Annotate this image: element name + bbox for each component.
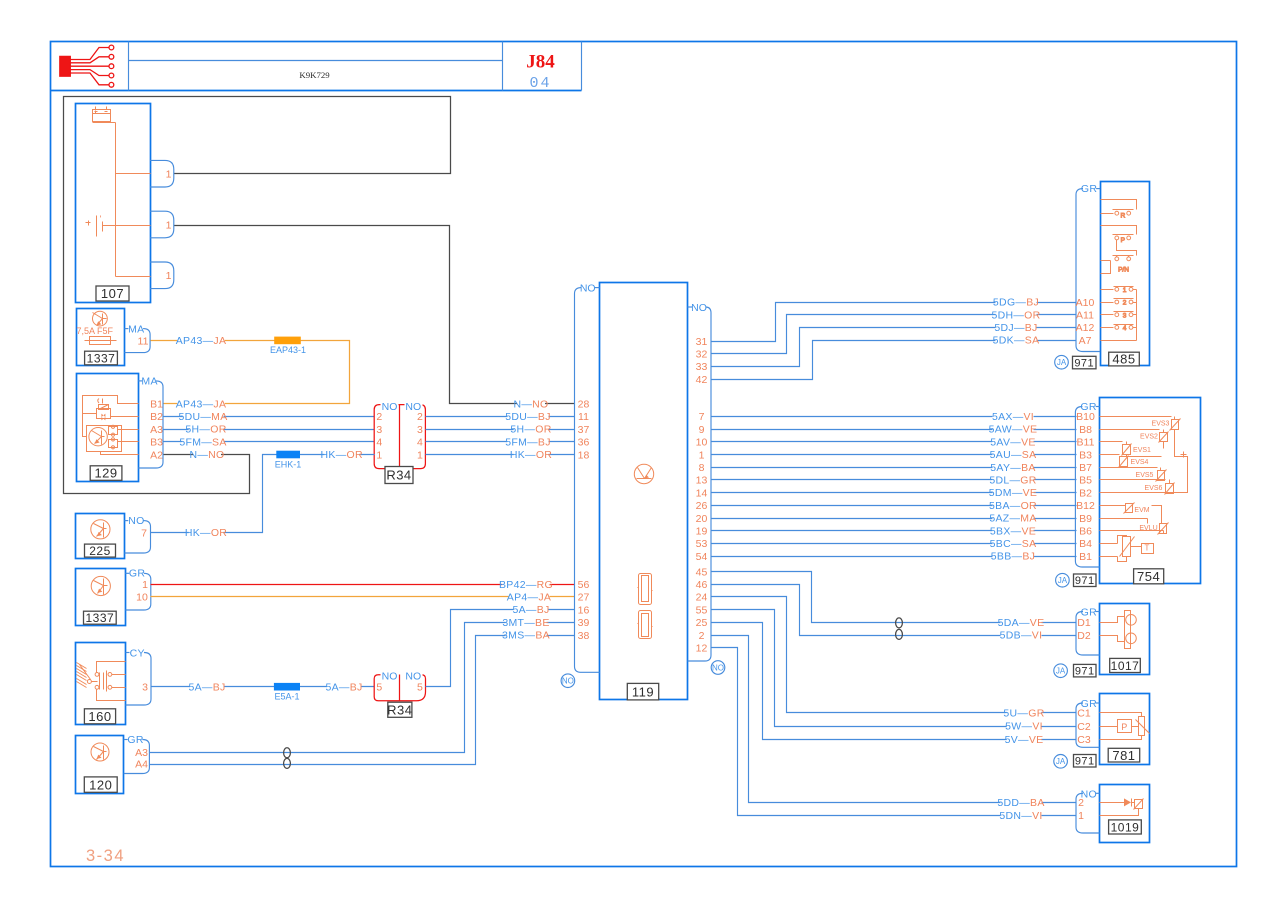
svg-text:4: 4 xyxy=(376,437,382,449)
svg-text:33: 33 xyxy=(696,361,708,373)
svg-text:NO: NO xyxy=(382,401,398,413)
component 107 battery box xyxy=(76,104,151,303)
label HK-OR near R34 xyxy=(324,449,359,459)
wire 5A-BJ from 160 pin 3 through splice E5A-1 to R34 lower xyxy=(152,686,375,688)
svg-text:GR: GR xyxy=(127,734,143,746)
754 solenoid EVS4 xyxy=(1100,454,1120,456)
wire 3MT-BE 120 A3 to 119 pin 39 xyxy=(150,623,575,753)
754 solenoid EVLU xyxy=(1100,518,1148,520)
label 5AX-VI xyxy=(992,411,1033,421)
label 5DK-SA xyxy=(995,335,1036,345)
119 left circled NO xyxy=(561,674,575,688)
225 transistor symbol xyxy=(91,520,110,539)
svg-text:MA: MA xyxy=(141,375,157,387)
connector R34 upper xyxy=(374,405,425,469)
component 129 box xyxy=(77,374,139,482)
129 lower wires xyxy=(118,429,139,431)
129 glow plug icon xyxy=(98,399,99,404)
title block lines xyxy=(51,90,582,92)
svg-text:5DG—BJ: 5DG—BJ xyxy=(993,297,1039,309)
svg-text:1: 1 xyxy=(166,169,172,181)
svg-text:781: 781 xyxy=(1112,748,1135,763)
svg-text:A10: A10 xyxy=(1076,297,1095,309)
svg-text:9: 9 xyxy=(699,424,705,436)
svg-text:45: 45 xyxy=(696,566,708,578)
svg-text:5BC—SA: 5BC—SA xyxy=(990,538,1037,550)
svg-text:20: 20 xyxy=(696,513,708,525)
1019 label box xyxy=(1109,820,1142,834)
label 5AU-SA xyxy=(992,449,1033,459)
svg-text:32: 32 xyxy=(696,349,708,361)
label 5DM-VE xyxy=(992,487,1033,497)
svg-text:1: 1 xyxy=(142,579,148,591)
label 5BC-SA xyxy=(992,538,1033,548)
svg-text:R34: R34 xyxy=(387,702,412,717)
R34 upper label box xyxy=(385,467,413,484)
svg-text:A7: A7 xyxy=(1079,335,1092,347)
485 switch P/N xyxy=(1115,257,1119,261)
svg-text:5AV—VE: 5AV—VE xyxy=(990,436,1035,448)
wire 5AZ-MA 119 pin 20 to 754 B9 xyxy=(712,518,1077,520)
component 1019 box xyxy=(1100,785,1150,843)
svg-text:B3: B3 xyxy=(1079,449,1092,461)
component 1337 fuse box xyxy=(77,309,125,366)
svg-text:7,5A F5F: 7,5A F5F xyxy=(77,326,114,336)
svg-text:BP42—RG: BP42—RG xyxy=(499,579,553,591)
754 solenoid EVS5 xyxy=(1100,467,1158,469)
svg-text:5: 5 xyxy=(417,682,423,694)
svg-text:5: 5 xyxy=(376,682,382,694)
wire 5AU-SA 119 pin 1 to 754 B3 xyxy=(712,454,1077,456)
781 label box xyxy=(1108,748,1140,762)
R34 lower label box xyxy=(388,702,412,717)
svg-text:GR: GR xyxy=(129,568,145,580)
svg-text:T: T xyxy=(1145,543,1150,552)
svg-text:971: 971 xyxy=(1075,666,1095,678)
svg-text:971: 971 xyxy=(1075,756,1095,768)
wire HK-OR from 225 pin 7 to splice EHK-1 and R34 pin 1 xyxy=(151,455,375,533)
1337 connector bracket MA pin 11 xyxy=(124,328,128,330)
svg-text:2: 2 xyxy=(699,630,705,642)
svg-text:1: 1 xyxy=(1123,287,1127,294)
754 solenoid EVS2 xyxy=(1100,429,1160,431)
120 label box xyxy=(84,777,117,792)
svg-text:7: 7 xyxy=(699,411,705,423)
svg-text:5DJ—BJ: 5DJ—BJ xyxy=(994,322,1037,334)
svg-text:A2: A2 xyxy=(150,449,163,461)
svg-text:NO: NO xyxy=(382,671,398,683)
label 5AV-VE xyxy=(992,437,1033,447)
119 right connector bracket NO xyxy=(688,306,693,308)
svg-text:AP43—JA: AP43—JA xyxy=(176,398,227,410)
1337 transistor symbol xyxy=(93,311,108,326)
svg-text:19: 19 xyxy=(696,526,708,538)
svg-text:B3: B3 xyxy=(150,437,163,449)
svg-text:5H—OR: 5H—OR xyxy=(185,424,226,436)
129 label box xyxy=(90,466,122,481)
component 1337 lower box xyxy=(76,569,126,626)
svg-text:NO: NO xyxy=(128,515,144,527)
svg-text:1: 1 xyxy=(166,219,172,231)
component 485 box xyxy=(1101,182,1150,366)
svg-text:5U—GR: 5U—GR xyxy=(1003,708,1044,720)
svg-text:10: 10 xyxy=(696,437,708,449)
svg-text:5DM—VE: 5DM—VE xyxy=(989,487,1037,499)
svg-text:AP4—JA: AP4—JA xyxy=(507,592,551,604)
svg-text:JA: JA xyxy=(1056,667,1066,676)
svg-text:1: 1 xyxy=(376,449,382,461)
svg-text:04: 04 xyxy=(529,75,551,92)
label 5AY-BA xyxy=(992,462,1033,472)
485 switch P xyxy=(1101,226,1137,235)
splice EHK-1 xyxy=(276,451,300,459)
svg-text:A3: A3 xyxy=(150,424,163,436)
1337 label box xyxy=(85,351,118,365)
754 JA circle xyxy=(1056,573,1070,587)
1017 sensor symbol xyxy=(1100,617,1125,623)
svg-text:3: 3 xyxy=(417,424,423,436)
ECU 119 box xyxy=(600,283,688,700)
svg-text:119: 119 xyxy=(632,684,654,699)
wire 5AX-VI 119 pin 7 to 754 B10 xyxy=(712,416,1077,418)
svg-text:3: 3 xyxy=(376,424,382,436)
svg-text:46: 46 xyxy=(696,579,708,591)
wires R34 right to 119 pins 11 37 36 xyxy=(426,416,575,418)
component 160 box xyxy=(76,643,126,725)
svg-text:1: 1 xyxy=(417,449,423,461)
component 754 box xyxy=(1100,398,1201,584)
svg-text:5H—OR: 5H—OR xyxy=(510,424,551,436)
svg-text:24: 24 xyxy=(696,592,708,604)
svg-text:5AW—VE: 5AW—VE xyxy=(989,424,1038,436)
label 5AZ-MA xyxy=(992,513,1033,523)
754 label box xyxy=(1134,569,1164,584)
wire 5DN-VI 119 pin 12 to 1019 pin 1 xyxy=(712,648,1077,816)
754 connector bracket GR pins B xyxy=(1096,406,1100,408)
wire 5AW-VE 119 pin 9 to 754 B8 xyxy=(712,429,1077,431)
svg-text:1337: 1337 xyxy=(87,351,116,365)
svg-text:42: 42 xyxy=(696,374,708,386)
svg-text:2: 2 xyxy=(376,411,382,423)
wire 5AY-BA 119 pin 8 to 754 B7 xyxy=(712,467,1077,469)
svg-text:39: 39 xyxy=(578,617,590,629)
svg-text:R34: R34 xyxy=(386,468,411,483)
1337 lower transistor symbol xyxy=(91,576,110,595)
svg-text:26: 26 xyxy=(696,500,708,512)
svg-text:NO: NO xyxy=(580,282,596,294)
225 connector bracket NO pin 7 xyxy=(124,520,128,522)
485 switches 1-4 xyxy=(1101,289,1114,291)
label 5DG-BJ xyxy=(995,297,1036,307)
label N-NO at 129 A2 xyxy=(193,449,221,459)
wire 5DH-OR 119 pin 32 to 485 A11 xyxy=(712,315,1077,354)
svg-text:1: 1 xyxy=(1078,810,1084,822)
svg-text:P/N: P/N xyxy=(1118,267,1129,274)
svg-text:B9: B9 xyxy=(1079,513,1092,525)
754 solenoid EVM xyxy=(1100,505,1126,507)
label AP43-JA upper xyxy=(177,335,225,345)
svg-text:3MT—BE: 3MT—BE xyxy=(502,617,549,629)
svg-text:11: 11 xyxy=(578,411,589,423)
svg-text:J84: J84 xyxy=(526,52,555,73)
wire 3MS-BA 120 A4 to 119 pin 38 xyxy=(150,636,575,765)
485 connector bracket GR pins A10 A11 A12 A7 xyxy=(1096,188,1100,190)
svg-text:B7: B7 xyxy=(1079,462,1092,474)
svg-text:D1: D1 xyxy=(1077,617,1091,629)
wire 5FM-SA 129 B3 to R34 xyxy=(164,441,375,443)
120 transistor symbol xyxy=(91,743,109,761)
svg-text:P: P xyxy=(1121,237,1125,244)
wire AP4-JA 1337 pin 10 to 119 pin 27 xyxy=(151,596,575,598)
svg-text:B5: B5 xyxy=(1079,475,1092,487)
119 internal symbol circle xyxy=(634,464,653,483)
battery icon xyxy=(93,107,111,122)
svg-text:5BA—OR: 5BA—OR xyxy=(989,500,1037,512)
component 120 box xyxy=(76,736,124,794)
svg-text:5W—VI: 5W—VI xyxy=(1005,721,1043,733)
1019 diode symbol xyxy=(1100,802,1125,804)
wire 5DD-BA 119 pin 2 to 1019 pin 2 xyxy=(712,636,1077,803)
1019 connector bracket NO pins 2 1 xyxy=(1096,792,1100,794)
svg-text:B2: B2 xyxy=(150,411,163,423)
svg-text:56: 56 xyxy=(578,579,590,591)
svg-text:160: 160 xyxy=(88,709,111,724)
1337 lower connector bracket GR pins 1 10 xyxy=(125,572,129,574)
svg-text:R: R xyxy=(1120,212,1125,219)
wire 5DK-SA 119 pin 42 to 485 A7 xyxy=(712,341,1077,380)
svg-text:NO: NO xyxy=(562,677,574,686)
label 5BB-BJ xyxy=(992,551,1033,561)
svg-text:C1: C1 xyxy=(1077,708,1091,720)
wire 5DB-VI 119 pin 46 to 1017 D2 xyxy=(712,585,1077,636)
129 bowtie arrow xyxy=(101,414,105,421)
485 JA circle xyxy=(1055,355,1069,369)
svg-text:2: 2 xyxy=(1123,300,1127,307)
225 label box xyxy=(85,544,116,557)
svg-text:B4: B4 xyxy=(1079,538,1092,550)
781 connector bracket GR pins C1 C2 C3 xyxy=(1096,702,1100,704)
svg-text:NO: NO xyxy=(691,302,707,314)
754 971 box xyxy=(1074,574,1097,587)
119 label box xyxy=(627,683,658,700)
svg-text:55: 55 xyxy=(696,604,708,616)
svg-text:JA: JA xyxy=(1058,576,1068,585)
svg-text:3: 3 xyxy=(142,682,148,694)
485 label box xyxy=(1109,352,1140,366)
svg-text:B2: B2 xyxy=(1079,487,1092,499)
label 5BA-OR xyxy=(992,500,1033,510)
svg-text:EVS3: EVS3 xyxy=(1152,421,1170,428)
485 971 box xyxy=(1073,356,1097,369)
119 left connector bracket NO xyxy=(595,287,600,289)
svg-text:K9K729: K9K729 xyxy=(299,70,330,80)
svg-text:5A—BJ: 5A—BJ xyxy=(512,604,549,616)
svg-text:JA: JA xyxy=(1056,757,1066,766)
wire 5W-VI 119 pin 55 to 781 C2 xyxy=(712,610,1077,727)
svg-text:EVS4: EVS4 xyxy=(1131,459,1149,466)
wire 5DA-VE 119 pin 45 to 1017 D1 xyxy=(712,572,1077,623)
svg-text:C2: C2 xyxy=(1077,721,1091,733)
1017 label box xyxy=(1110,658,1141,672)
svg-text:B12: B12 xyxy=(1076,500,1095,512)
svg-text:B1: B1 xyxy=(1079,551,1092,563)
781 pressure sensor symbol xyxy=(1100,713,1142,717)
svg-text:8: 8 xyxy=(699,462,705,474)
svg-text:5AY—BA: 5AY—BA xyxy=(990,462,1035,474)
wire battery feed N-NO (107 tab2 to 119 pin 28) xyxy=(174,226,575,404)
svg-text:2: 2 xyxy=(417,411,423,423)
svg-text:5DB—VI: 5DB—VI xyxy=(1000,630,1043,642)
781 JA circle xyxy=(1054,755,1068,769)
485 switch R xyxy=(1101,200,1137,341)
119 right circled NO xyxy=(711,661,725,675)
wire 5BA-OR 119 pin 26 to 754 B12 xyxy=(712,505,1077,507)
119 internal plug symbols xyxy=(639,574,652,605)
svg-text:1: 1 xyxy=(166,270,172,282)
svg-text:EVS1: EVS1 xyxy=(1133,447,1151,454)
wire BP42-RG 1337 pin 1 to 119 pin 56 xyxy=(151,584,575,586)
svg-text:971: 971 xyxy=(1075,575,1095,587)
svg-text:GR: GR xyxy=(1081,183,1097,195)
svg-text:EVS6: EVS6 xyxy=(1145,485,1163,492)
wire 5H-OR 129 A3 to R34 xyxy=(164,429,375,431)
160 ignition switch symbol xyxy=(77,662,126,701)
wire 5DL-GR 119 pin 13 to 754 B5 xyxy=(712,479,1077,481)
svg-text:5DA—VE: 5DA—VE xyxy=(998,617,1045,629)
svg-text:5DD—BA: 5DD—BA xyxy=(997,797,1044,809)
1017 JA circle xyxy=(1054,664,1068,678)
svg-text:54: 54 xyxy=(696,551,708,563)
129 slanted box xyxy=(99,405,109,410)
160 label box xyxy=(84,709,115,724)
svg-text:14: 14 xyxy=(696,487,708,499)
splice EAP43-1 xyxy=(274,337,301,345)
svg-text:12: 12 xyxy=(696,643,708,655)
svg-text:225: 225 xyxy=(89,544,111,558)
svg-text:28: 28 xyxy=(578,399,590,411)
svg-text:5FM—BJ: 5FM—BJ xyxy=(505,436,551,448)
svg-text:5A—BJ: 5A—BJ xyxy=(188,681,225,693)
754 temperature sensor xyxy=(1100,543,1118,545)
svg-text:5DN—VI: 5DN—VI xyxy=(999,810,1042,822)
107 label box xyxy=(96,286,129,301)
svg-text:25: 25 xyxy=(696,617,708,629)
svg-text:5DU—BJ: 5DU—BJ xyxy=(505,411,551,423)
svg-text:C3: C3 xyxy=(1077,734,1091,746)
svg-text:3: 3 xyxy=(1123,312,1127,319)
svg-text:P: P xyxy=(1121,722,1127,732)
twisted pair symbol xyxy=(284,748,291,758)
svg-text:EVS5: EVS5 xyxy=(1136,472,1154,479)
svg-text:B11: B11 xyxy=(1077,437,1095,449)
svg-text:EVS2: EVS2 xyxy=(1140,434,1158,441)
wire 5A-BJ R34 lower to 119 pin 16 xyxy=(426,610,575,687)
svg-text:1019: 1019 xyxy=(1111,820,1140,834)
svg-text:27: 27 xyxy=(578,592,590,604)
129 valve squares xyxy=(109,427,118,435)
twisted pair symbol right xyxy=(896,618,903,628)
svg-text:4: 4 xyxy=(417,437,423,449)
svg-text:EHK-1: EHK-1 xyxy=(275,459,302,469)
781 971 box xyxy=(1074,755,1097,768)
label 5DL-GR xyxy=(992,475,1033,485)
svg-text:18: 18 xyxy=(578,449,590,461)
svg-text:11: 11 xyxy=(138,335,149,347)
fuse symbol xyxy=(90,337,111,345)
svg-text:NO: NO xyxy=(712,663,724,672)
160 connector bracket CY pin 3 xyxy=(126,652,130,654)
120 connector bracket GR pins A3 A4 xyxy=(124,739,128,741)
svg-text:5DH—OR: 5DH—OR xyxy=(991,309,1040,321)
wire 5BC-SA 119 pin 53 to 754 B4 xyxy=(712,543,1077,545)
svg-text:1: 1 xyxy=(699,449,705,461)
svg-text:5A—BJ: 5A—BJ xyxy=(325,681,362,693)
svg-text:JA: JA xyxy=(1057,358,1067,367)
svg-text:HK—OR: HK—OR xyxy=(185,527,227,539)
107 internal wires xyxy=(93,122,116,124)
svg-text:10: 10 xyxy=(136,592,148,604)
label 5BX-VE xyxy=(992,526,1033,536)
svg-text:5DL—GR: 5DL—GR xyxy=(989,475,1036,487)
1017 971 box xyxy=(1074,664,1097,677)
svg-text:4: 4 xyxy=(1123,325,1127,332)
svg-text:3MS—BA: 3MS—BA xyxy=(502,630,550,642)
wire battery ground loop N-NO (107 tab1 to 129 A2) xyxy=(64,97,451,494)
svg-text:16: 16 xyxy=(578,604,590,616)
svg-text:D2: D2 xyxy=(1077,630,1091,642)
754 solenoid EVS1 xyxy=(1100,441,1123,443)
svg-text:B8: B8 xyxy=(1079,424,1092,436)
svg-text:A4: A4 xyxy=(135,759,148,771)
svg-text:31: 31 xyxy=(696,336,708,348)
1017 connector bracket GR pins D1 D2 xyxy=(1096,611,1100,613)
svg-text:37: 37 xyxy=(578,424,590,436)
svg-text:HK—OR: HK—OR xyxy=(510,449,552,461)
129 motor rect xyxy=(87,426,122,452)
svg-text:1017: 1017 xyxy=(1111,659,1140,673)
svg-text:5AZ—MA: 5AZ—MA xyxy=(989,513,1036,525)
svg-text:N—NO: N—NO xyxy=(513,398,548,410)
754 solenoid EVS3 xyxy=(1100,416,1172,418)
component 1017 box xyxy=(1100,604,1150,675)
754 plus bus xyxy=(1100,430,1188,493)
svg-text:5AU—SA: 5AU—SA xyxy=(990,449,1037,461)
svg-text:AP43—JA: AP43—JA xyxy=(176,335,227,347)
svg-text:EAP43-1: EAP43-1 xyxy=(270,345,306,355)
svg-text:107: 107 xyxy=(101,286,124,301)
wire 5DG-BJ 119 pin 31 to 485 A10 xyxy=(712,303,1077,342)
svg-text:A12: A12 xyxy=(1076,322,1095,334)
connector R34 lower xyxy=(374,675,425,701)
svg-text:5DK—SA: 5DK—SA xyxy=(993,335,1040,347)
svg-text:5FM—SA: 5FM—SA xyxy=(179,436,226,448)
wire HK-OR R34 pin1 to 119 pin 18 xyxy=(426,454,575,456)
wire 5AV-VE 119 pin 10 to 754 B11 xyxy=(712,441,1077,443)
wire 5V-VE 119 pin 25 to 781 C3 xyxy=(712,623,1077,740)
129 relay rect xyxy=(97,409,111,419)
svg-text:971: 971 xyxy=(1074,358,1094,370)
label 5AW-VE xyxy=(992,424,1033,434)
svg-text:B6: B6 xyxy=(1079,526,1092,538)
svg-text:129: 129 xyxy=(94,466,117,481)
svg-text:13: 13 xyxy=(696,475,708,487)
svg-text:EVM: EVM xyxy=(1134,507,1149,514)
wire 5DM-VE 119 pin 14 to 754 B2 xyxy=(712,492,1077,494)
component 781 box xyxy=(1100,694,1150,765)
svg-text:38: 38 xyxy=(578,630,590,642)
129 upper loop wires xyxy=(83,396,139,414)
label AP43-JA lower xyxy=(177,399,225,409)
